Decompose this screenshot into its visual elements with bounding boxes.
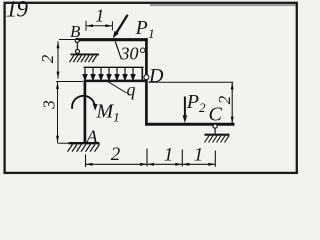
svg-text:3: 3 — [39, 100, 58, 110]
border frame — [5, 3, 297, 173]
force P2 arrow — [184, 97, 186, 117]
border inner top line — [150, 4, 296, 6]
column A — [84, 80, 87, 143]
moment M1 arc — [72, 96, 95, 109]
ground line C — [205, 134, 230, 136]
hinge D circle — [144, 75, 149, 80]
ground hatches A — [68, 144, 100, 151]
bottom dimension arrows — [86, 163, 216, 166]
ground hatches C — [205, 136, 230, 143]
q leader line — [108, 81, 127, 93]
vertical member — [145, 38, 148, 125]
left dimension 2 extension top — [59, 39, 80, 41]
ground hatches B — [70, 55, 97, 62]
svg-text:D: D — [148, 65, 164, 87]
support lower circle B — [76, 49, 80, 53]
top dimension 1 — [86, 21, 112, 31]
svg-text:1: 1 — [194, 145, 204, 166]
ground line B — [71, 53, 100, 55]
moment M1 arrowhead — [93, 103, 98, 110]
svg-text:2: 2 — [38, 54, 57, 63]
distributed load right edge — [141, 67, 143, 80]
bottom member — [145, 123, 234, 126]
background paper — [0, 0, 300, 178]
distributed load arrows q — [83, 68, 135, 80]
left extension bottom — [58, 142, 69, 144]
left dimension 2 line — [57, 41, 60, 78]
distributed load top line — [84, 66, 144, 68]
pin circle at C — [213, 124, 217, 128]
svg-text:C: C — [209, 104, 223, 126]
svg-text:q: q — [127, 80, 136, 100]
svg-text:A: A — [86, 127, 99, 147]
svg-text:19: 19 — [6, 0, 29, 22]
bottom extension ticks — [86, 149, 216, 168]
svg-text:1: 1 — [164, 145, 174, 166]
svg-text:30°: 30° — [120, 44, 146, 64]
left extension middle — [56, 81, 83, 83]
loaded member A-D — [84, 80, 145, 83]
right dimension 2 line — [231, 82, 234, 123]
force P1 arrow — [116, 15, 128, 34]
left dimension 3 line — [56, 82, 59, 143]
beam B to corner — [76, 38, 148, 41]
bottom dimension line — [86, 163, 216, 165]
ground line A — [69, 142, 100, 144]
svg-text:B: B — [70, 22, 81, 41]
support link B — [76, 42, 78, 49]
svg-text:2: 2 — [111, 144, 121, 165]
pin circle at B — [75, 38, 79, 42]
angle 30 line — [115, 42, 121, 59]
right extension from D — [149, 81, 234, 83]
svg-text:1: 1 — [95, 5, 104, 25]
support link C — [214, 128, 216, 133]
svg-text:2: 2 — [215, 95, 234, 104]
